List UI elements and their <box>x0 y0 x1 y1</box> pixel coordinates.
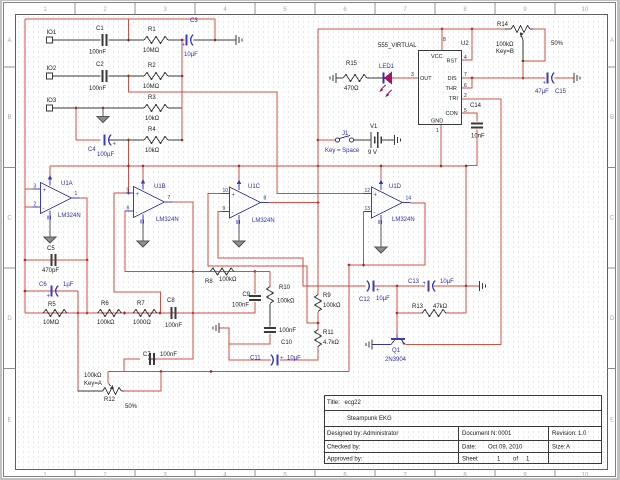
LED LED1 <box>379 64 395 97</box>
ground U1C gnd <box>233 225 245 247</box>
svg-text:Key=A: Key=A <box>84 381 102 387</box>
svg-text:+: + <box>280 356 284 362</box>
svg-text:C6: C6 <box>39 282 47 288</box>
node C13 out rail <box>465 285 468 288</box>
wire C12 col drop <box>348 265 350 372</box>
svg-text:+: + <box>376 288 380 294</box>
wire R3 right <box>168 107 182 109</box>
capacitor C11 <box>250 355 301 366</box>
svg-text:100nF: 100nF <box>232 303 249 309</box>
svg-text:9: 9 <box>223 206 226 212</box>
svg-text:0001: 0001 <box>498 431 512 437</box>
node 555col J1 branch <box>317 139 320 142</box>
resistor R15 <box>343 61 367 92</box>
wire R11 bottom to C11 <box>280 346 318 360</box>
node U1B+ / C4 node <box>127 192 130 195</box>
svg-text:13: 13 <box>365 206 371 212</box>
svg-text:6: 6 <box>127 206 130 212</box>
svg-text:8: 8 <box>443 37 446 43</box>
wire C7 left drop <box>124 359 140 372</box>
wire R9-R11 link <box>317 312 319 330</box>
svg-text:LM324N: LM324N <box>156 217 179 223</box>
wire R2 node to U1D+ run <box>129 76 364 194</box>
wire row IO2 <box>53 75 101 77</box>
potentiometer R14 <box>496 22 564 61</box>
connector IO1 <box>47 30 57 43</box>
wire Q1 emitter run <box>406 344 501 346</box>
svg-text:U1C: U1C <box>248 184 261 190</box>
node C1-R1 <box>127 39 130 42</box>
svg-text:OUT: OUT <box>420 76 432 82</box>
svg-text:10µF: 10µF <box>376 296 390 302</box>
wire C14 bottom <box>466 130 477 166</box>
wire U1B feedback <box>125 211 193 272</box>
svg-text:A: A <box>610 38 614 44</box>
svg-text:C15: C15 <box>555 89 567 95</box>
node R14-C15 <box>522 77 525 80</box>
wire CON to C14 <box>462 113 477 122</box>
svg-text:1: 1 <box>75 191 78 197</box>
wire 555 gnd pin <box>440 125 442 166</box>
transistor Q1 2N3904 <box>385 334 407 363</box>
wire U1B +in wire <box>114 192 134 194</box>
wire U1C out <box>269 202 319 204</box>
svg-text:Oct 09, 2010: Oct 09, 2010 <box>488 445 523 451</box>
node U1D -in fb <box>362 264 365 267</box>
svg-text:U1B: U1B <box>154 184 166 190</box>
svg-text:Q1: Q1 <box>392 348 401 354</box>
svg-text:470Ω: 470Ω <box>344 86 359 92</box>
svg-text:Title:: Title: <box>327 400 340 406</box>
svg-text:R12: R12 <box>104 397 116 403</box>
wire R8/R10 row right <box>255 271 270 273</box>
wire U1D vcc stub <box>380 166 382 180</box>
svg-text:5: 5 <box>464 108 467 114</box>
node C4-R4 <box>127 139 130 142</box>
terminal C10 loop arrow <box>213 323 219 333</box>
svg-text:10µF: 10µF <box>287 356 301 362</box>
wire 555 top rail y=29 <box>318 28 505 30</box>
svg-text:C10: C10 <box>281 340 293 346</box>
wire Q1 base drop <box>396 286 398 334</box>
node R1 bus <box>181 39 184 42</box>
wire RST pin <box>462 29 472 60</box>
svg-text:C1: C1 <box>96 26 104 32</box>
svg-text:U2: U2 <box>461 41 469 47</box>
svg-text:IO3: IO3 <box>47 98 57 104</box>
resistor R5 <box>43 302 67 326</box>
connector IO2 <box>47 66 57 79</box>
node R9-R11 junction <box>317 322 320 325</box>
svg-text:9 V: 9 V <box>368 150 377 156</box>
node RST riser <box>471 28 474 31</box>
wire op-amp rail y=166 <box>50 165 466 167</box>
wire C9 bottom <box>254 302 256 313</box>
svg-text:R11: R11 <box>323 330 334 336</box>
svg-text:RST: RST <box>447 59 459 65</box>
svg-text:2: 2 <box>34 202 37 208</box>
svg-text:1000Ω: 1000Ω <box>133 320 151 326</box>
svg-text:100nF: 100nF <box>279 328 296 334</box>
wire R2 right <box>168 75 182 77</box>
capacitor C2 <box>89 62 107 92</box>
node IO3-gnd <box>102 107 105 110</box>
wire C4 node to U1B+ drop <box>128 140 130 193</box>
svg-text:100kΩ: 100kΩ <box>323 303 341 309</box>
svg-text:C5: C5 <box>47 246 55 252</box>
wire 555 vcc pin <box>441 29 443 50</box>
wire R1 to C3 <box>168 39 185 41</box>
node R2-C2 <box>127 75 130 78</box>
svg-text:Checked by:: Checked by: <box>327 445 361 451</box>
wire R13 right <box>445 286 466 313</box>
node rail U1D vcc <box>380 165 383 168</box>
node R8 right <box>254 270 257 273</box>
wire U1B out <box>172 202 194 313</box>
wire R13 row <box>397 312 423 314</box>
terminal Q1 arrow <box>366 340 391 350</box>
wire C10 bottom link <box>229 334 270 344</box>
wire C7 row <box>148 358 156 360</box>
node Q1-R13 <box>396 312 399 315</box>
svg-text:LED1: LED1 <box>379 64 395 70</box>
svg-text:ecg22: ecg22 <box>345 400 362 406</box>
svg-text:-: - <box>374 211 376 217</box>
svg-text:14: 14 <box>406 196 412 202</box>
timer U2 555 <box>378 37 469 134</box>
svg-text:Revision:: Revision: <box>552 431 577 437</box>
svg-text:R8: R8 <box>205 279 213 285</box>
terminal R15 arrow <box>330 73 336 83</box>
svg-text:IO2: IO2 <box>47 66 57 72</box>
wire C12-C13 link <box>374 285 425 287</box>
node rail 555 column cross <box>317 165 320 168</box>
wire U1A fb drop <box>86 260 88 313</box>
svg-text:10: 10 <box>582 7 589 13</box>
svg-text:100nF: 100nF <box>160 352 177 358</box>
svg-text:Size:: Size: <box>552 445 566 451</box>
capacitor C7 <box>143 352 177 365</box>
op-amp U1C <box>222 180 275 226</box>
resistor R6 <box>97 301 122 326</box>
wire U1C +in loop <box>208 194 318 324</box>
wire R10 top stub <box>269 272 271 288</box>
svg-text:R13: R13 <box>412 304 424 310</box>
svg-text:1.0: 1.0 <box>578 431 587 437</box>
node C8-U1B col <box>192 312 195 315</box>
svg-text:Steampunk EKG: Steampunk EKG <box>347 416 392 422</box>
svg-text:R15: R15 <box>346 61 358 67</box>
wire C3 output riser <box>214 19 216 40</box>
svg-text:C14: C14 <box>470 103 482 109</box>
svg-text:2N3904: 2N3904 <box>385 357 407 363</box>
wire C5 row <box>25 259 87 261</box>
svg-text:R5: R5 <box>48 302 56 308</box>
potentiometer R12 <box>78 373 138 410</box>
node C5 left <box>24 259 27 262</box>
svg-text:Sheet: Sheet <box>462 457 478 463</box>
wire row IO3 <box>53 107 145 109</box>
terminal C15 arrow <box>574 73 580 83</box>
wire C4 row <box>76 139 101 141</box>
node IO3-C4 <box>75 107 78 110</box>
svg-text:3: 3 <box>411 72 414 78</box>
terminal battery arrow <box>383 135 401 145</box>
svg-text:C4: C4 <box>88 147 96 153</box>
wire U1B out to C7 col <box>156 313 193 359</box>
resistor R1 <box>143 27 168 54</box>
node C3 out <box>214 39 217 42</box>
svg-text:10nF: 10nF <box>471 134 485 140</box>
node R6-R7 <box>123 312 126 315</box>
svg-text:-: - <box>136 210 138 216</box>
wire U1C -in loop <box>218 212 366 287</box>
svg-text:4: 4 <box>464 55 467 61</box>
node rail U1B+ cross <box>127 165 130 168</box>
svg-text:100nF: 100nF <box>89 86 106 92</box>
capacitor C12 <box>359 281 390 304</box>
svg-text:Date:: Date: <box>462 445 477 451</box>
svg-text:10kΩ: 10kΩ <box>145 116 160 122</box>
wire C8-C9 row <box>193 312 255 314</box>
svg-text:100kΩ: 100kΩ <box>219 277 237 283</box>
battery V1 <box>366 124 383 156</box>
ground input gnd <box>97 108 109 123</box>
svg-text:470pF: 470pF <box>42 268 59 274</box>
node rail U1C vcc <box>238 165 241 168</box>
wire U1D out feedback <box>349 203 425 265</box>
svg-text:R1: R1 <box>148 27 156 33</box>
svg-text:Document N:: Document N: <box>462 431 497 437</box>
node R5-R6 <box>86 312 89 315</box>
wire resistor bus vertical x=182 <box>181 40 183 140</box>
capacitor C9 <box>232 292 261 309</box>
node C12 col top <box>348 264 351 267</box>
svg-text:U1A: U1A <box>61 181 73 187</box>
node U1A out / C5 <box>86 259 89 262</box>
capacitor C1 <box>89 26 107 56</box>
resistor R9 <box>315 293 342 312</box>
wire R14 wiper drop <box>522 61 524 78</box>
svg-text:10MΩ: 10MΩ <box>143 84 160 90</box>
svg-text:1µF: 1µF <box>63 282 74 288</box>
ground U1B gnd <box>137 225 149 248</box>
svg-text:8: 8 <box>264 196 267 202</box>
svg-text:U1D: U1D <box>389 184 402 190</box>
node rail U1B vcc <box>142 165 145 168</box>
resistor R4 <box>144 127 168 154</box>
resistor R3 <box>144 95 168 122</box>
resistor R11 <box>315 330 340 347</box>
ground U1D gnd <box>375 225 387 253</box>
svg-text:5: 5 <box>127 188 130 194</box>
wire left vertical x=25 (U1A input / feedback column) <box>24 19 26 313</box>
svg-text:2: 2 <box>464 93 467 99</box>
svg-text:D: D <box>7 316 12 322</box>
svg-text:+: + <box>423 281 427 287</box>
wire C9 branch <box>254 272 256 295</box>
svg-text:C8: C8 <box>167 298 175 304</box>
svg-text:12: 12 <box>365 188 371 194</box>
svg-text:IO1: IO1 <box>47 30 57 36</box>
svg-text:555_VIRTUAL: 555_VIRTUAL <box>378 43 417 49</box>
wire C3 to terminal <box>194 39 237 41</box>
wire C1 to R1 <box>109 39 145 41</box>
node C6-R5 row <box>77 312 80 315</box>
svg-text:C9: C9 <box>242 292 250 298</box>
svg-text:C: C <box>7 216 12 222</box>
wire U1D -in drop <box>363 212 365 266</box>
wire TRI column <box>462 99 501 345</box>
wire C10 bottom loop <box>219 328 271 360</box>
terminal C13 arrow <box>480 281 486 291</box>
svg-text:Key = Space: Key = Space <box>325 148 360 154</box>
svg-text:E: E <box>610 418 614 424</box>
svg-text:C3: C3 <box>190 18 198 24</box>
wire C4 to R4 <box>109 139 145 141</box>
svg-text:C13: C13 <box>408 279 420 285</box>
wire C2 to R2 <box>109 75 145 77</box>
node 555 gnd rail <box>440 165 443 168</box>
op-amp U1B <box>126 179 179 225</box>
svg-text:1: 1 <box>436 128 439 134</box>
svg-text:-: - <box>43 206 45 212</box>
resistor R13 <box>412 304 448 317</box>
svg-text:10: 10 <box>582 473 589 479</box>
wire C15 out <box>555 77 575 79</box>
svg-text:+: + <box>43 188 47 194</box>
svg-text:VCC: VCC <box>431 54 443 60</box>
svg-text:C2: C2 <box>96 62 104 68</box>
capacitor C5 <box>42 246 59 274</box>
svg-text:C: C <box>610 216 615 222</box>
svg-text:100kΩ: 100kΩ <box>496 42 514 48</box>
wire IO1 net top rail <box>25 18 215 20</box>
svg-text:B: B <box>610 115 614 121</box>
wire DIS row <box>462 77 546 79</box>
wire 555 column x=318 <box>317 29 319 295</box>
svg-text:+: + <box>374 193 378 199</box>
terminal C3 output arrow <box>236 35 242 45</box>
svg-text:GND: GND <box>431 119 443 125</box>
svg-text:6: 6 <box>464 83 467 89</box>
svg-text:C11: C11 <box>250 356 261 362</box>
wire IO3 to C4 drop <box>75 108 77 140</box>
node R14 wiper <box>522 60 525 63</box>
svg-text:10µF: 10µF <box>440 279 454 285</box>
node U1C out <box>317 201 320 204</box>
connector IO3 <box>47 98 57 111</box>
svg-text:CON: CON <box>446 111 458 117</box>
resistor R10 <box>267 285 296 305</box>
capacitor C10 <box>264 328 296 346</box>
svg-text:LM324N: LM324N <box>252 218 275 224</box>
svg-text:47kΩ: 47kΩ <box>433 304 448 310</box>
svg-text:J1: J1 <box>342 131 349 137</box>
svg-text:+: + <box>47 294 51 300</box>
switch J1 <box>325 131 360 154</box>
svg-text:C7: C7 <box>143 352 151 358</box>
wire C6 row <box>25 290 78 292</box>
svg-text:A: A <box>7 38 11 44</box>
svg-text:50%: 50% <box>551 41 564 47</box>
node R2 bus <box>181 75 184 78</box>
svg-text:-: - <box>232 211 234 217</box>
wire bottom rail y=371.5 <box>108 371 349 373</box>
svg-text:B: B <box>7 115 11 121</box>
wire C12 row <box>303 285 366 287</box>
node C6 left <box>24 290 27 293</box>
wire R12 right <box>124 372 161 392</box>
capacitor C14 <box>470 103 485 140</box>
svg-text:TRI: TRI <box>449 96 458 102</box>
svg-text:100kΩ: 100kΩ <box>277 299 295 305</box>
svg-text:100nF: 100nF <box>89 50 106 56</box>
wire R15 to LED <box>367 77 383 79</box>
wire R4 right <box>168 139 182 141</box>
svg-text:LM324N: LM324N <box>58 213 81 219</box>
wire C13 out <box>434 285 480 287</box>
capacitor C13 <box>408 279 454 292</box>
svg-text:E: E <box>7 418 11 424</box>
svg-text:R14: R14 <box>497 22 509 28</box>
svg-text:+: + <box>232 193 236 199</box>
node R12 top <box>160 370 163 373</box>
svg-text:Key=B: Key=B <box>496 49 514 55</box>
svg-text:THR: THR <box>446 86 457 92</box>
wire rail end drop x=466 <box>465 166 467 286</box>
resistor R8 <box>205 268 237 285</box>
capacitor C15 <box>535 73 567 96</box>
svg-text:3: 3 <box>34 184 37 190</box>
svg-text:Administrator: Administrator <box>363 431 398 437</box>
wire THR stub <box>462 78 472 88</box>
svg-text:D: D <box>610 316 615 322</box>
wire battery row <box>354 139 367 141</box>
svg-text:C12: C12 <box>359 297 371 303</box>
svg-text:of: of <box>513 457 518 463</box>
svg-text:DIS: DIS <box>448 76 458 82</box>
svg-text:100nF: 100nF <box>165 323 182 329</box>
svg-text:R10: R10 <box>279 285 291 291</box>
resistor R7 <box>133 301 157 326</box>
svg-text:Designed by:: Designed by: <box>327 431 362 437</box>
svg-text:R4: R4 <box>148 127 156 133</box>
wire R14 right loop <box>523 29 545 61</box>
svg-text:47µF: 47µF <box>535 89 549 95</box>
wire R15 lead left <box>336 77 343 79</box>
op-amp U1D <box>364 180 415 226</box>
svg-text:+: + <box>113 142 117 148</box>
node C12-C13/Q1 <box>396 285 399 288</box>
wire R5 R6 R7 C8 row <box>25 312 193 314</box>
title block <box>325 396 602 464</box>
wire U1B vcc stub <box>142 166 144 180</box>
svg-text:7: 7 <box>464 72 467 78</box>
svg-text:+: + <box>136 192 140 198</box>
node C14 rail <box>465 165 468 168</box>
op-amp U1A <box>33 175 81 221</box>
wire J1 branch <box>318 139 336 141</box>
wire U1A -in stub <box>25 206 33 208</box>
node U1B fb <box>192 270 195 273</box>
node R7-C8 <box>159 312 162 315</box>
svg-text:10MΩ: 10MΩ <box>43 320 60 326</box>
svg-text:10µF: 10µF <box>184 52 198 58</box>
svg-text:10MΩ: 10MΩ <box>143 48 160 54</box>
wire U1C vcc stub <box>238 166 240 180</box>
svg-text:V1: V1 <box>370 124 378 130</box>
